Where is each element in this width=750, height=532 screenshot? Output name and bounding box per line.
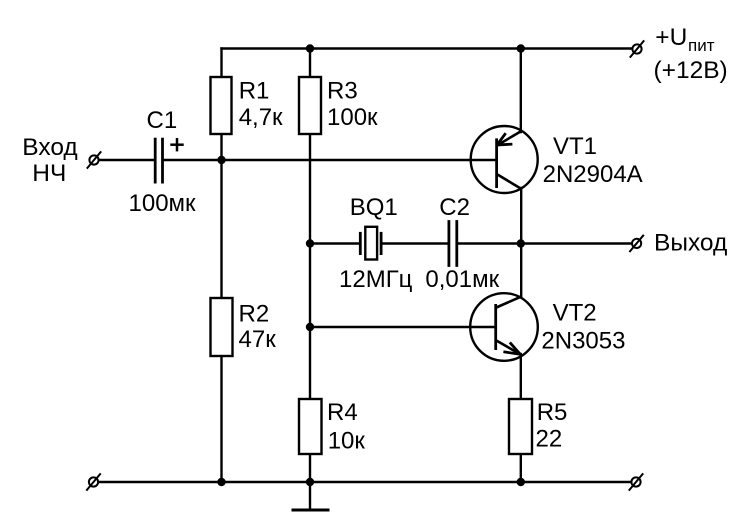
svg-text:R4: R4 xyxy=(327,399,358,426)
svg-text:VT1: VT1 xyxy=(553,133,597,160)
svg-text:22: 22 xyxy=(536,426,563,453)
svg-text:2N3053: 2N3053 xyxy=(541,328,625,355)
svg-text:(+12В): (+12В) xyxy=(654,57,728,84)
svg-text:100мк: 100мк xyxy=(129,190,197,217)
svg-text:пит: пит xyxy=(688,36,715,55)
svg-text:10к: 10к xyxy=(328,428,366,455)
svg-text:0,01мк: 0,01мк xyxy=(425,266,499,293)
svg-text:C1: C1 xyxy=(147,107,178,134)
svg-text:R5: R5 xyxy=(537,399,568,426)
svg-text:НЧ: НЧ xyxy=(32,160,66,187)
svg-text:2N2904A: 2N2904A xyxy=(543,161,643,188)
svg-text:+U: +U xyxy=(655,24,687,51)
svg-text:C2: C2 xyxy=(439,194,470,221)
svg-text:BQ1: BQ1 xyxy=(350,194,398,221)
svg-text:100к: 100к xyxy=(327,104,378,131)
svg-text:47к: 47к xyxy=(239,326,277,353)
svg-text:R2: R2 xyxy=(239,301,270,328)
svg-text:R1: R1 xyxy=(239,78,270,105)
svg-text:4,7к: 4,7к xyxy=(239,104,283,131)
svg-text:VT2: VT2 xyxy=(553,300,597,327)
svg-text:Выход: Выход xyxy=(654,230,727,257)
svg-text:12МГц: 12МГц xyxy=(339,266,413,293)
svg-text:R3: R3 xyxy=(327,78,358,105)
svg-text:Вход: Вход xyxy=(22,134,77,161)
